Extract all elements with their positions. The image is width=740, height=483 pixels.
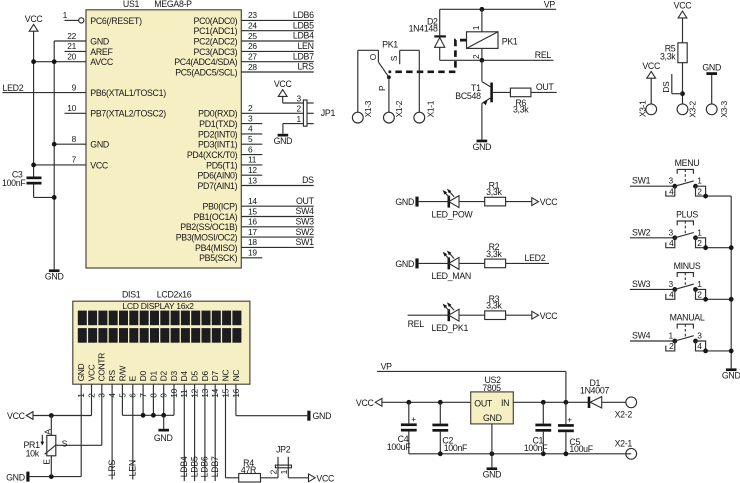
svg-text:+: + bbox=[567, 414, 572, 424]
svg-text:X1-2: X1-2 bbox=[394, 100, 404, 117]
svg-text:LED_PK1: LED_PK1 bbox=[432, 323, 469, 333]
LCD pin 7 D0 bbox=[138, 371, 148, 399]
pin 24 PC1(ADC1) (right) net LDB5 bbox=[194, 20, 315, 36]
svg-text:LDB7: LDB7 bbox=[210, 456, 220, 477]
svg-text:PD4(XCK/T0): PD4(XCK/T0) bbox=[187, 150, 238, 160]
power symbol VCC (bottom left) bbox=[7, 411, 33, 421]
svg-text:LED2: LED2 bbox=[3, 83, 24, 93]
svg-text:DIS1: DIS1 bbox=[122, 290, 141, 300]
wire VCC to X3-1 bbox=[650, 78, 652, 104]
svg-text:SW3: SW3 bbox=[632, 279, 651, 289]
svg-text:18: 18 bbox=[248, 237, 257, 247]
svg-text:PC0(ADC0): PC0(ADC0) bbox=[194, 16, 238, 26]
switch SW1 MENU bbox=[630, 158, 731, 199]
LCD pin 14 D7 bbox=[210, 371, 220, 399]
junction rail at C5 bbox=[564, 451, 569, 456]
svg-text:D2: D2 bbox=[159, 371, 169, 382]
svg-text:16: 16 bbox=[248, 217, 257, 227]
junction at C2 bbox=[438, 400, 443, 405]
svg-text:GND: GND bbox=[473, 142, 492, 152]
svg-text:GND: GND bbox=[483, 470, 502, 480]
wire LCD pin 1 to GND rail bbox=[80, 399, 82, 477]
net LDB5 stub from LCD pin 12 bbox=[189, 399, 199, 482]
svg-text:15: 15 bbox=[248, 206, 257, 216]
junction at C4 bbox=[406, 400, 411, 405]
svg-text:1: 1 bbox=[296, 114, 301, 124]
wire LED_PK1 to R3 bbox=[459, 314, 485, 316]
junction DS tap bbox=[680, 91, 685, 96]
LCD pin 13 D6 bbox=[200, 371, 210, 399]
svg-text:LED2: LED2 bbox=[524, 253, 545, 263]
net LDB6 stub from LCD pin 13 bbox=[200, 399, 210, 482]
svg-text:X3-1: X3-1 bbox=[637, 100, 647, 117]
svg-text:25: 25 bbox=[248, 31, 257, 41]
resistor R2 3,3k bbox=[485, 242, 506, 268]
svg-text:47R: 47R bbox=[241, 465, 256, 475]
LCD pin 16 NC bbox=[231, 370, 241, 399]
wire LCD pin 7 to data ground bbox=[141, 399, 146, 418]
IC US1 MEGA8-P body bbox=[86, 0, 241, 268]
svg-text:S: S bbox=[62, 438, 68, 448]
power symbol VCC at JP2 bbox=[309, 473, 336, 483]
svg-text:4: 4 bbox=[669, 290, 674, 300]
wire LCD pin 8 to data ground bbox=[151, 399, 156, 418]
pin 14 PB0(ICP) (right) net OUT bbox=[203, 196, 315, 212]
wire LCD pin 9 to data ground bbox=[161, 399, 166, 418]
capacitor C1 100nF bbox=[524, 402, 551, 454]
relay PK1 pin 1 to VP bbox=[471, 9, 482, 32]
LCD pin 3 CONTR bbox=[97, 353, 107, 399]
junction C3 branch bbox=[52, 195, 57, 200]
svg-text:7: 7 bbox=[72, 155, 77, 165]
svg-text:GND: GND bbox=[6, 472, 25, 482]
pin 13 PD7(AIN1) (right) net DS bbox=[197, 175, 314, 191]
wire LCD pin 15 to R4 bbox=[226, 399, 239, 478]
pin 17 PB3(MOSI/OC2) (right) net SW2 bbox=[176, 227, 314, 243]
pin 20 AVCC (left) bbox=[34, 52, 114, 68]
svg-text:100nF: 100nF bbox=[2, 178, 26, 188]
LCD pin 9 D2 bbox=[159, 371, 169, 399]
svg-text:4: 4 bbox=[248, 124, 253, 134]
terminal X3-1 bbox=[637, 100, 656, 117]
svg-text:PB6(XTAL1/TOSC1): PB6(XTAL1/TOSC1) bbox=[90, 88, 166, 98]
svg-text:1: 1 bbox=[697, 227, 702, 237]
svg-text:MANUAL: MANUAL bbox=[670, 313, 705, 323]
relay armature and pole P bbox=[377, 62, 391, 112]
svg-text:MENU: MENU bbox=[675, 158, 700, 168]
wire GND to X3-3 bbox=[711, 75, 713, 104]
svg-text:IN: IN bbox=[501, 398, 509, 408]
LCD pin 10 D3 bbox=[169, 371, 179, 399]
svg-text:X1-3: X1-3 bbox=[363, 100, 373, 117]
wire GND to LED_POW bbox=[419, 201, 449, 203]
LCD pin 8 D1 bbox=[148, 371, 158, 399]
power symbol VCC at R1 bbox=[532, 197, 559, 207]
svg-text:11: 11 bbox=[248, 155, 257, 165]
svg-text:19: 19 bbox=[248, 248, 257, 258]
pin 1 PC6(/RESET) with inversion bubble bbox=[63, 10, 142, 26]
svg-text:PD0(RXD): PD0(RXD) bbox=[198, 109, 238, 119]
LCD pin 6 E bbox=[128, 375, 138, 398]
svg-text:X2-1: X2-1 bbox=[615, 438, 633, 448]
svg-text:NC: NC bbox=[220, 370, 230, 382]
pin 15 PB1(OC1A) (right) net SW4 bbox=[194, 206, 315, 222]
svg-text:GND: GND bbox=[154, 433, 173, 443]
svg-text:4: 4 bbox=[669, 186, 674, 196]
wire LED_POW to R1 bbox=[459, 201, 485, 203]
svg-text:SW1: SW1 bbox=[296, 237, 315, 247]
svg-text:21: 21 bbox=[67, 41, 76, 51]
svg-text:2: 2 bbox=[248, 103, 253, 113]
svg-text:10: 10 bbox=[67, 103, 76, 113]
wire LCD pin 2 to VCC rail bbox=[33, 399, 91, 416]
svg-text:AREF: AREF bbox=[90, 47, 113, 57]
LCD pin 15 NC bbox=[220, 370, 230, 399]
junction at C1 bbox=[541, 400, 546, 405]
svg-text:5: 5 bbox=[248, 134, 253, 144]
resistor R3 3,3k bbox=[485, 294, 506, 320]
svg-text:PC4(ADC4/SDA): PC4(ADC4/SDA) bbox=[174, 57, 237, 67]
svg-text:100nF: 100nF bbox=[444, 443, 468, 453]
svg-text:1: 1 bbox=[697, 176, 702, 186]
pin 3 PD1(TXD) (right) bbox=[199, 113, 262, 129]
diode D2 1N4148 bbox=[409, 9, 446, 60]
svg-text:DS: DS bbox=[661, 81, 671, 93]
svg-text:X3-2: X3-2 bbox=[688, 100, 698, 117]
svg-text:D6: D6 bbox=[200, 371, 210, 382]
svg-text:GND: GND bbox=[90, 140, 109, 150]
ground symbol above X3-3 bbox=[702, 62, 721, 75]
svg-text:23: 23 bbox=[248, 10, 257, 20]
ground symbol right of LCD bbox=[307, 411, 331, 422]
junction GND vertical at pin 20 row bbox=[52, 59, 57, 64]
wire R3 to VCC bbox=[506, 314, 532, 316]
svg-text:LED_POW: LED_POW bbox=[432, 209, 474, 219]
ground symbol below US2 bbox=[483, 467, 502, 479]
LCD pin 4 RS bbox=[107, 370, 117, 399]
net VP wire to regulator input bbox=[377, 361, 566, 402]
svg-text:28: 28 bbox=[248, 62, 257, 72]
ground symbol at T1 emitter bbox=[473, 140, 492, 152]
wire GND to LED_MAN bbox=[419, 262, 449, 264]
svg-text:E: E bbox=[41, 459, 51, 465]
switch SW2 PLUS bbox=[630, 209, 731, 250]
switch SW3 MINUS bbox=[630, 261, 731, 302]
svg-text:GND: GND bbox=[395, 259, 414, 269]
pin 26 PC3(ADC3) (right) net LEN bbox=[194, 41, 314, 57]
pin 5 PD3(INT1) (right) bbox=[198, 134, 262, 150]
terminal X2-1 bbox=[615, 438, 637, 459]
capacitor C3 100nF bbox=[2, 170, 42, 189]
svg-text:LRS: LRS bbox=[297, 62, 314, 72]
svg-text:PB4(MISO): PB4(MISO) bbox=[195, 243, 238, 253]
wire US2 GND down bbox=[491, 424, 493, 468]
svg-text:22: 22 bbox=[67, 31, 76, 41]
svg-text:PC6(/RESET): PC6(/RESET) bbox=[90, 16, 142, 26]
svg-text:2: 2 bbox=[697, 290, 702, 300]
svg-text:OUT: OUT bbox=[296, 196, 315, 206]
terminal X3-3 bbox=[706, 100, 729, 117]
LCD module DIS1 LCD2x16 body bbox=[73, 290, 250, 385]
svg-text:MINUS: MINUS bbox=[674, 261, 701, 271]
junction VCC rail at PR1 bbox=[49, 413, 54, 418]
net REL wire to LED_PK1 bbox=[408, 315, 449, 329]
ground symbol (bottom left) bbox=[6, 472, 29, 483]
junction rail at C2 bbox=[438, 451, 443, 456]
wire JP2 pin 1 to VCC bbox=[288, 477, 308, 479]
svg-text:MEGA8-P: MEGA8-P bbox=[154, 0, 192, 9]
svg-text:LDB6: LDB6 bbox=[293, 10, 314, 20]
svg-text:GND: GND bbox=[76, 363, 86, 381]
svg-text:LEN: LEN bbox=[128, 460, 138, 476]
wire VCC rail to US2 OUT bbox=[382, 401, 471, 403]
node LED2 label (to PB6) bbox=[3, 83, 24, 93]
wire LCD pin 3 to wiper bbox=[101, 399, 103, 446]
pin 9 PB6(XTAL1/TOSC1) (left) bbox=[3, 82, 167, 98]
LED LED_PK1 bbox=[432, 302, 469, 333]
junction rail at US2 GND bbox=[490, 451, 495, 456]
svg-text:100uF: 100uF bbox=[387, 442, 411, 452]
svg-text:D3: D3 bbox=[169, 371, 179, 382]
svg-text:GND: GND bbox=[274, 136, 293, 146]
svg-text:R/W: R/W bbox=[117, 366, 127, 382]
power symbol VCC above R5 bbox=[674, 1, 693, 18]
net LED2 wire bbox=[506, 253, 549, 264]
svg-text:VCC: VCC bbox=[274, 79, 293, 89]
wire GND rail to LCD pin1 bbox=[30, 476, 82, 478]
svg-text:3: 3 bbox=[668, 176, 673, 186]
svg-text:13: 13 bbox=[248, 175, 257, 185]
capacitor C5 100uF bbox=[558, 402, 594, 454]
svg-text:PD1(TXD): PD1(TXD) bbox=[199, 119, 238, 129]
svg-text:10k: 10k bbox=[26, 449, 40, 459]
svg-text:E: E bbox=[128, 375, 138, 381]
svg-text:9: 9 bbox=[72, 82, 77, 92]
wire bottom rail bbox=[409, 453, 631, 455]
power symbol VCC at R3 bbox=[532, 311, 559, 321]
svg-text:GND: GND bbox=[483, 413, 502, 423]
pin 21 AREF (left) bbox=[65, 41, 114, 57]
svg-text:14: 14 bbox=[248, 196, 257, 206]
pin 27 PC4(ADC4/SDA) (right) net LDB7 bbox=[174, 51, 314, 67]
svg-text:US1: US1 bbox=[123, 0, 140, 9]
ground symbol below switch bus bbox=[722, 368, 740, 380]
resistor R1 3,3k bbox=[485, 180, 506, 206]
pin 8 GND (left) bbox=[54, 134, 109, 150]
svg-text:P: P bbox=[377, 85, 387, 91]
junction bus at SW4 bbox=[729, 349, 734, 354]
svg-text:VCC: VCC bbox=[674, 1, 693, 11]
svg-text:VCC: VCC bbox=[25, 14, 44, 24]
svg-text:LDB6: LDB6 bbox=[200, 456, 210, 477]
wire R5 to X3-2 bbox=[682, 63, 684, 104]
svg-text:VCC: VCC bbox=[7, 411, 26, 421]
JP1 pin 1 bbox=[296, 114, 313, 124]
wire LED_MAN to R2 bbox=[459, 262, 485, 264]
pin 4 PD2(INT0) (right) bbox=[198, 124, 262, 140]
junction at C5/VP bbox=[564, 400, 569, 405]
svg-text:PLUS: PLUS bbox=[676, 209, 698, 219]
LCD pin 11 D4 bbox=[179, 371, 189, 399]
power symbol VCC at regulator output bbox=[356, 398, 382, 408]
svg-text:LDB7: LDB7 bbox=[293, 51, 314, 61]
svg-text:SW2: SW2 bbox=[632, 227, 651, 237]
svg-text:3,3k: 3,3k bbox=[486, 301, 502, 311]
svg-text:LCD2x16: LCD2x16 bbox=[157, 290, 192, 300]
svg-text:1: 1 bbox=[471, 25, 481, 30]
svg-text:2: 2 bbox=[697, 238, 702, 248]
svg-text:O: O bbox=[368, 53, 378, 60]
pin 16 PB2(SS/OC1B) (right) net SW3 bbox=[180, 217, 314, 233]
junction bus at SW2 bbox=[729, 245, 734, 250]
wire C3 bottom to GND vertical bbox=[34, 185, 55, 198]
svg-text:AVCC: AVCC bbox=[90, 57, 114, 67]
svg-text:CONTR: CONTR bbox=[97, 353, 107, 382]
net LEN stub from LCD pin 6 bbox=[128, 399, 138, 480]
power symbol VCC above X3-1 bbox=[642, 61, 661, 78]
svg-text:SW4: SW4 bbox=[632, 331, 651, 341]
wire D1 to X2-2 bbox=[602, 401, 626, 403]
svg-text:VCC: VCC bbox=[86, 364, 96, 381]
wire LCD pin 5 to data ground bbox=[122, 399, 174, 416]
svg-text:A: A bbox=[42, 429, 52, 435]
LCD pin 2 VCC bbox=[86, 364, 96, 398]
net VP top wire bbox=[440, 0, 557, 10]
svg-text:LRS: LRS bbox=[107, 460, 117, 477]
svg-text:D5: D5 bbox=[190, 371, 200, 382]
svg-text:1N4007: 1N4007 bbox=[580, 386, 609, 396]
power symbol VCC (top left) bbox=[25, 14, 44, 31]
svg-text:BC548: BC548 bbox=[455, 91, 481, 101]
svg-text:PB2(SS/OC1B): PB2(SS/OC1B) bbox=[180, 222, 237, 232]
svg-text:PB7(XTAL2/TOSC2): PB7(XTAL2/TOSC2) bbox=[90, 109, 166, 119]
wire R1 to VCC bbox=[506, 201, 532, 203]
junction bus at SW3 bbox=[729, 297, 734, 302]
svg-text:LDB4: LDB4 bbox=[179, 456, 189, 477]
svg-text:X2-2: X2-2 bbox=[615, 409, 633, 419]
svg-text:SW3: SW3 bbox=[296, 217, 315, 227]
svg-text:+: + bbox=[411, 414, 416, 424]
svg-text:GND: GND bbox=[45, 272, 64, 282]
svg-text:VCC: VCC bbox=[356, 398, 375, 408]
svg-text:8: 8 bbox=[72, 134, 77, 144]
svg-text:3: 3 bbox=[296, 93, 301, 103]
svg-text:LDB4: LDB4 bbox=[293, 31, 314, 41]
svg-text:3: 3 bbox=[668, 227, 673, 237]
junction VP at relay pin 1 bbox=[480, 7, 485, 12]
wire PR1 wiper to LCD CONTR bbox=[56, 438, 101, 448]
svg-text:OUT: OUT bbox=[474, 398, 493, 408]
svg-text:LDB5: LDB5 bbox=[293, 20, 314, 30]
net DS stub bbox=[661, 74, 683, 94]
ground symbol at LED_POW bbox=[395, 197, 418, 208]
svg-text:3,3k: 3,3k bbox=[486, 187, 502, 197]
svg-text:X3-3: X3-3 bbox=[719, 100, 729, 117]
svg-text:3: 3 bbox=[697, 331, 702, 341]
svg-text:12: 12 bbox=[248, 165, 257, 175]
pin 23 PC0(ADC0) (right) net LDB6 bbox=[194, 10, 315, 26]
pin 2 PD0(RXD) (right) bbox=[198, 103, 303, 119]
LCD pin 5 R/W bbox=[117, 366, 127, 399]
svg-text:1: 1 bbox=[279, 469, 289, 474]
svg-text:OUT: OUT bbox=[536, 82, 555, 92]
svg-text:SW2: SW2 bbox=[296, 227, 315, 237]
svg-text:LED_MAN: LED_MAN bbox=[432, 271, 471, 281]
svg-text:PB1(OC1A): PB1(OC1A) bbox=[194, 212, 238, 222]
svg-text:VCC: VCC bbox=[90, 160, 109, 170]
svg-text:SW4: SW4 bbox=[296, 206, 315, 216]
pin 18 PB4(MISO) (right) net SW1 bbox=[195, 237, 314, 253]
svg-text:VCC: VCC bbox=[540, 197, 559, 207]
junction GND vertical at pin 8 bbox=[52, 142, 57, 147]
svg-text:D0: D0 bbox=[138, 371, 148, 382]
svg-text:1N4148: 1N4148 bbox=[409, 23, 438, 33]
svg-text:VCC: VCC bbox=[316, 473, 335, 483]
svg-text:S: S bbox=[389, 55, 399, 61]
LED LED_POW bbox=[432, 189, 474, 220]
LCD pin 12 D5 bbox=[190, 371, 200, 399]
svg-text:1: 1 bbox=[668, 331, 673, 341]
svg-text:D7: D7 bbox=[210, 371, 220, 382]
svg-text:PB0(ICP): PB0(ICP) bbox=[203, 202, 238, 212]
LCD pin 1 GND bbox=[76, 363, 86, 398]
svg-text:NC: NC bbox=[231, 370, 241, 382]
terminal X2-2 bbox=[615, 397, 637, 420]
net LRS stub from LCD pin 4 bbox=[107, 399, 117, 480]
wire LCD pin 16 to GND bbox=[236, 399, 307, 416]
svg-text:24: 24 bbox=[248, 21, 257, 31]
LED LED_MAN bbox=[432, 251, 471, 282]
potentiometer PR1 10k bbox=[23, 416, 56, 477]
svg-text:PD7(AIN1): PD7(AIN1) bbox=[197, 181, 237, 191]
svg-text:PD6(AIN0): PD6(AIN0) bbox=[197, 171, 237, 181]
capacitor C4 100uF bbox=[387, 402, 417, 454]
net LDB4 stub from LCD pin 11 bbox=[179, 399, 189, 482]
wire R4 to JP2 pin 2 bbox=[261, 477, 279, 479]
svg-text:LDB5: LDB5 bbox=[189, 456, 199, 477]
ground symbol at LED_MAN bbox=[395, 258, 418, 269]
pin 19 PB5(SCK) (right) bbox=[199, 248, 262, 264]
svg-text:PD3(INT1): PD3(INT1) bbox=[198, 140, 238, 150]
wire US2 IN rail to D1 bbox=[513, 401, 590, 403]
svg-text:100uF: 100uF bbox=[569, 444, 593, 454]
svg-text:2: 2 bbox=[296, 104, 301, 114]
ground symbol below data lines bbox=[154, 415, 173, 443]
wire VCC vertical to AVCC and VCC pins bbox=[33, 31, 35, 176]
terminal X3-2 bbox=[677, 100, 698, 117]
ground symbol below US1 bbox=[45, 269, 64, 281]
svg-text:PD2(INT0): PD2(INT0) bbox=[198, 129, 238, 139]
svg-text:1: 1 bbox=[697, 279, 702, 289]
svg-text:100nF: 100nF bbox=[524, 443, 548, 453]
relay contact S terminal bbox=[389, 50, 419, 112]
svg-text:4: 4 bbox=[697, 341, 702, 351]
wire switch ground bus bbox=[730, 196, 732, 368]
resistor R6 3,3k bbox=[510, 88, 531, 115]
terminal X1-1 bbox=[414, 100, 436, 123]
svg-text:27: 27 bbox=[248, 52, 257, 62]
svg-text:VCC: VCC bbox=[642, 61, 661, 71]
junction GND rail at PR1 bbox=[49, 474, 54, 479]
svg-text:3,3k: 3,3k bbox=[660, 52, 676, 62]
svg-text:GND: GND bbox=[90, 36, 109, 46]
svg-text:GND: GND bbox=[313, 411, 332, 421]
svg-text:RS: RS bbox=[107, 370, 117, 382]
voltage regulator US2 7805 bbox=[471, 375, 514, 424]
ground symbol at JP1 bbox=[274, 134, 293, 146]
terminal X1-2 bbox=[384, 100, 405, 123]
pin 25 PC2(ADC2) (right) net LDB4 bbox=[194, 31, 315, 47]
